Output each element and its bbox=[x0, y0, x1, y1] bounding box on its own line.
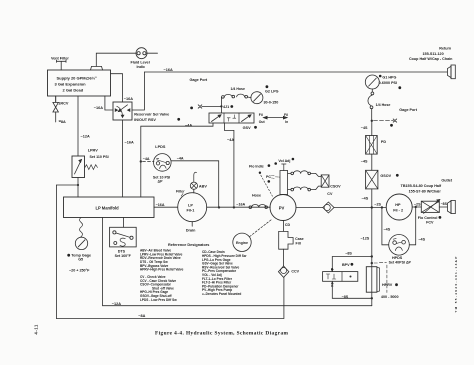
svg-text:−4A: −4A bbox=[185, 123, 192, 127]
svg-text:155-S7-80 W/Chair: 155-S7-80 W/Chair bbox=[409, 189, 442, 193]
wire LPRV to LP manifold with branch node bbox=[77, 178, 79, 198]
svg-text:Fil - 2: Fil - 2 bbox=[393, 208, 403, 212]
svg-text:Return: Return bbox=[439, 47, 452, 51]
wire RSV bottom to LP manifold, label -16A bbox=[123, 120, 134, 197]
svg-text:1RCV: 1RCV bbox=[58, 102, 69, 106]
outlet coupling bbox=[401, 178, 456, 213]
svg-text:In: In bbox=[285, 120, 288, 124]
svg-text:−4S: −4S bbox=[361, 160, 368, 164]
shutoff valve GSOV bbox=[366, 170, 399, 189]
svg-text:ΔP: ΔP bbox=[158, 180, 164, 184]
svg-text:−8S: −8S bbox=[345, 251, 352, 255]
return coupling bbox=[409, 47, 455, 79]
svg-text:G5: G5 bbox=[78, 258, 83, 262]
wire PV discharge to check valve bbox=[296, 207, 323, 209]
svg-text:−16A: −16A bbox=[236, 203, 245, 207]
svg-text:−20 + 250°F: −20 + 250°F bbox=[69, 269, 90, 273]
svg-text:ABV: ABV bbox=[199, 184, 207, 188]
svg-text:−4A: −4A bbox=[227, 138, 234, 142]
svg-text:Flo Indic: Flo Indic bbox=[249, 164, 264, 168]
bypass valve BPV with loop, labels -8S bbox=[323, 251, 372, 298]
svg-text:Engine: Engine bbox=[236, 241, 248, 245]
wire -8A bottom return line bbox=[56, 277, 284, 318]
temp gauge G5 with capillary bbox=[67, 218, 91, 273]
svg-text:PV: PV bbox=[279, 205, 285, 210]
svg-text:Supply 20 GPM@6½°: Supply 20 GPM@6½° bbox=[57, 76, 98, 81]
pressure switch HPDS with loop bbox=[382, 207, 426, 265]
valve CSOV (compensator shut-off) bbox=[321, 175, 341, 196]
suction line LP Fil-1 to PV with nodes, label -16A bbox=[207, 203, 271, 209]
node HP junction bbox=[371, 206, 373, 208]
svg-text:−8S: −8S bbox=[342, 295, 349, 299]
check valve CCV bbox=[278, 266, 299, 277]
svg-text:−4A: −4A bbox=[143, 157, 150, 161]
svg-text:Reference Designators: Reference Designators bbox=[168, 243, 209, 247]
temp switch DTS bbox=[110, 218, 137, 258]
wire G1 riser to PD, label -4S bbox=[361, 121, 372, 136]
svg-text:Out: Out bbox=[259, 120, 266, 124]
hose 1/4 below G1 bbox=[368, 92, 390, 121]
hose compensator to CSOV (lower) bbox=[288, 186, 322, 191]
reservoir tank bbox=[48, 66, 111, 96]
svg-text:LPRV: LPRV bbox=[88, 148, 99, 152]
LP manifold bbox=[64, 197, 155, 218]
svg-text:−8A: −8A bbox=[59, 120, 66, 124]
wire PV case drain CD bbox=[283, 221, 290, 232]
svg-text:−8S: −8S bbox=[441, 202, 448, 206]
svg-text:FCV: FCV bbox=[426, 220, 434, 224]
valve RSV (reservoir selector) bbox=[113, 102, 180, 122]
svg-text:Set 110 PSI: Set 110 PSI bbox=[90, 155, 109, 159]
wire HP Fil-2 to FCV, label -2S, node bbox=[412, 202, 421, 208]
wire RSV right to top return line bbox=[132, 72, 144, 110]
svg-text:LP Manifold: LP Manifold bbox=[96, 205, 120, 210]
wire top return line -16A bbox=[144, 68, 447, 72]
svg-text:−4A: −4A bbox=[177, 157, 184, 161]
svg-text:Gage Port: Gage Port bbox=[399, 108, 417, 112]
relief valve HPRV bbox=[366, 267, 398, 300]
svg-text:−16A: −16A bbox=[124, 97, 133, 101]
svg-text:Filter: Filter bbox=[176, 190, 185, 194]
svg-text:−16A: −16A bbox=[125, 140, 134, 144]
hose 1/4 to gauge G2 bbox=[221, 87, 251, 106]
svg-text:Fill: Fill bbox=[296, 242, 301, 246]
svg-text:PC: PC bbox=[266, 175, 271, 179]
wire reservoir to LPRV, label -12A bbox=[78, 96, 90, 156]
svg-text:Flo Control: Flo Control bbox=[418, 216, 438, 220]
svg-text:−4S: −4S bbox=[362, 196, 369, 200]
svg-text:DTS: DTS bbox=[118, 249, 126, 253]
wire FCV to outlet coupling, label -8S bbox=[439, 202, 447, 207]
svg-text:Fil: Fil bbox=[259, 113, 263, 117]
pressure switch LPDS bbox=[140, 145, 219, 207]
vent filter bbox=[51, 56, 69, 70]
svg-text:PD: PD bbox=[381, 140, 386, 144]
svg-text:CD: CD bbox=[285, 223, 291, 227]
svg-text:TM 55-4920-401-13&P: TM 55-4920-401-13&P bbox=[454, 255, 458, 312]
pulsation dampener PD bbox=[366, 136, 387, 155]
legend right column bbox=[202, 250, 247, 296]
svg-text:−12A: −12A bbox=[81, 135, 90, 139]
pressure compensator PC on PV bbox=[266, 158, 294, 195]
svg-text:Fil: Fil bbox=[284, 113, 288, 117]
svg-text:Fil-1: Fil-1 bbox=[187, 209, 195, 213]
svg-text:HPDS: HPDS bbox=[392, 256, 403, 260]
svg-text:HPRV–High Pres Relief Valve: HPRV–High Pres Relief Valve bbox=[140, 268, 184, 272]
svg-text:Fluid Level: Fluid Level bbox=[131, 61, 150, 65]
wire GSV bottom port to suction line, label -4A bbox=[224, 123, 234, 208]
svg-text:CCV: CCV bbox=[291, 269, 299, 273]
svg-text:BPV: BPV bbox=[342, 263, 350, 267]
svg-text:Case: Case bbox=[295, 237, 304, 241]
wire -12A bottom return line bbox=[103, 218, 372, 306]
fluid level indicator bbox=[131, 48, 158, 69]
filter LP Fil-1 bbox=[176, 190, 207, 233]
svg-text:Coup Half W/Cap - Chain: Coup Half W/Cap - Chain bbox=[409, 57, 453, 61]
svg-text:G2 LPG: G2 LPG bbox=[265, 90, 279, 94]
svg-text:0-6000 PSI: 0-6000 PSI bbox=[379, 81, 397, 85]
svg-text:−16A: −16A bbox=[164, 68, 173, 72]
svg-text:Indic: Indic bbox=[137, 65, 146, 69]
svg-text:1/4 Hose: 1/4 Hose bbox=[376, 103, 391, 107]
flow indicator label with pointer bbox=[249, 164, 273, 196]
svg-text:Drain: Drain bbox=[186, 228, 196, 232]
wire relief return (left drop to -8A line) bbox=[56, 185, 78, 319]
valve LPRV (low pressure relief) bbox=[72, 148, 109, 177]
svg-text:155-S11-120: 155-S11-120 bbox=[423, 52, 444, 56]
svg-text:3 Gal Expansion: 3 Gal Expansion bbox=[55, 82, 87, 87]
gauge G2 LPG bbox=[251, 85, 279, 104]
gage port X near GSV with node 4J1 bbox=[190, 78, 234, 113]
svg-text:−4S: −4S bbox=[361, 126, 368, 130]
svg-text:−4S: −4S bbox=[384, 228, 391, 232]
svg-text:IN/OUT RSV: IN/OUT RSV bbox=[134, 118, 156, 122]
wire check valve to HP junction bbox=[334, 207, 386, 209]
svg-text:−16A: −16A bbox=[94, 106, 103, 110]
svg-text:Gage Port: Gage Port bbox=[190, 78, 208, 82]
air bleed valve ABV on LP Fil-1 bbox=[190, 172, 207, 192]
fil out / fil in arrows at GSV bbox=[259, 113, 288, 124]
valve 1RCV bbox=[53, 96, 69, 122]
svg-text:Figure 4-4. Hydraulic System,: Figure 4-4. Hydraulic System, Schematic … bbox=[155, 331, 289, 337]
svg-text:●–Denotes Panel Mounted: ●–Denotes Panel Mounted bbox=[202, 292, 241, 296]
wire manifold to LP Fil-1, label -16A bbox=[154, 203, 178, 207]
svg-text:TB155-S4-80 Coup Half: TB155-S4-80 Coup Half bbox=[401, 184, 442, 188]
svg-text:−16A: −16A bbox=[156, 203, 165, 207]
case fill tee bbox=[279, 231, 304, 266]
svg-text:−2S: −2S bbox=[374, 203, 381, 207]
svg-text:−12S: −12S bbox=[361, 236, 370, 240]
svg-text:Vol Adj: Vol Adj bbox=[278, 159, 290, 163]
svg-text:Reservoir Sel Valve: Reservoir Sel Valve bbox=[134, 113, 169, 117]
svg-text:400 - 5000: 400 - 5000 bbox=[381, 295, 399, 299]
wire reservoir to RSV top, label -16A bbox=[111, 74, 134, 102]
svg-text:−4S: −4S bbox=[418, 238, 425, 242]
svg-text:LP: LP bbox=[188, 203, 193, 207]
svg-text:LPDS - Low Pres Diff Sw: LPDS - Low Pres Diff Sw bbox=[140, 298, 177, 302]
valve GSV (gage selector) bbox=[209, 113, 257, 130]
svg-text:30-0-150: 30-0-150 bbox=[264, 100, 279, 104]
pilot dashed line to HPDS setting bbox=[374, 263, 387, 293]
wire PD to GSOV, label -4S bbox=[361, 154, 372, 170]
svg-text:GSOV: GSOV bbox=[380, 174, 391, 178]
wire GSV left port down-left, label -4A bbox=[141, 123, 213, 197]
svg-text:Hose: Hose bbox=[252, 194, 261, 198]
svg-text:HPRV: HPRV bbox=[382, 283, 393, 287]
svg-text:HP: HP bbox=[395, 203, 401, 207]
svg-text:G1 HPG: G1 HPG bbox=[382, 75, 396, 79]
gage port X on HP riser bbox=[371, 108, 418, 127]
svg-text:4-11: 4-11 bbox=[34, 324, 39, 334]
wire GSOV to HP line, label -4S bbox=[362, 189, 372, 208]
hose on suction line bbox=[249, 194, 268, 209]
hose compensator to CSOV (upper) bbox=[288, 171, 322, 177]
check valve CV bbox=[323, 202, 334, 213]
wire reservoir to RSV left, label -16A bbox=[94, 96, 113, 110]
svg-text:−12A: −12A bbox=[112, 302, 121, 306]
svg-text:Outlet: Outlet bbox=[441, 178, 452, 182]
svg-text:Set 160°F: Set 160°F bbox=[115, 254, 132, 258]
svg-text:Set 40PSI ΔP: Set 40PSI ΔP bbox=[389, 261, 412, 265]
filter HP Fil-2 bbox=[386, 194, 412, 220]
svg-text:CSOV: CSOV bbox=[330, 184, 341, 188]
flow control valve FCV bbox=[418, 200, 442, 225]
svg-text:GSV: GSV bbox=[243, 126, 251, 130]
engine drive bbox=[233, 220, 272, 252]
legend left column bbox=[140, 249, 184, 302]
pump PV (high pressure pump) bbox=[270, 195, 296, 221]
wire HP junction down to relief network, label -12S bbox=[361, 208, 373, 306]
wire reservoir cap to fluid level indicator bbox=[96, 53, 136, 66]
svg-text:Vent Filter: Vent Filter bbox=[51, 56, 69, 60]
svg-text:−2S: −2S bbox=[414, 202, 421, 206]
svg-text:4J1: 4J1 bbox=[223, 105, 229, 109]
wire reservoir to 1RCV bbox=[55, 96, 57, 102]
svg-text:2 Gal Dead: 2 Gal Dead bbox=[63, 88, 84, 93]
svg-text:CV: CV bbox=[327, 192, 333, 196]
svg-text:LPDS: LPDS bbox=[155, 145, 166, 149]
svg-text:1/4 Hose: 1/4 Hose bbox=[231, 87, 245, 91]
svg-text:−8A: −8A bbox=[138, 314, 145, 318]
gauge G1 HPG bbox=[365, 75, 401, 92]
